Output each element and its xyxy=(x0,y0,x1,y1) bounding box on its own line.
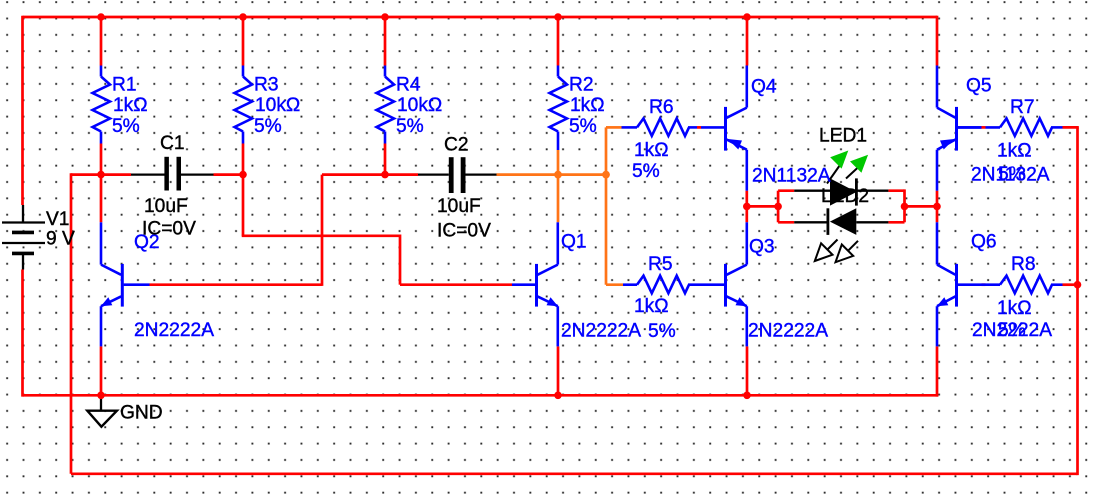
wire orange net C2 to Q1 collector horizontal xyxy=(497,173,607,176)
node dot R3 bottom xyxy=(239,171,247,179)
svg-text:C1: C1 xyxy=(160,133,185,154)
wire Q3 emitter lead xyxy=(746,346,749,395)
wire R3 node to cross vertical xyxy=(322,173,385,176)
wire node row left segment to C1 xyxy=(71,173,131,176)
node dot R4 bottom xyxy=(381,171,389,179)
capacitor C2 right black lead xyxy=(466,173,497,175)
LED bridge top black wire left xyxy=(794,190,830,192)
wire Q4 emitter red lead xyxy=(745,191,748,223)
LED2 xyxy=(815,208,858,262)
wire long feedback right vertical xyxy=(1076,127,1079,475)
svg-text:10kΩ: 10kΩ xyxy=(397,95,442,116)
node dot ground rail GND xyxy=(97,392,105,400)
resistor R8 xyxy=(958,276,1063,294)
node dot Q5Q6 xyxy=(933,203,941,211)
transistor Q6 xyxy=(937,222,957,346)
LED bridge bottom black wire left xyxy=(794,221,828,223)
wire orange stub to R5 xyxy=(606,283,623,286)
wire long feedback left vertical xyxy=(70,173,73,474)
transistor Q3 xyxy=(726,222,748,346)
wire R4 node to C2 left xyxy=(385,173,418,176)
svg-text:Q5: Q5 xyxy=(966,76,992,97)
svg-text:10kΩ: 10kΩ xyxy=(255,95,300,116)
node dot R4 top xyxy=(381,13,389,21)
node dot bridge Q3Q4 xyxy=(743,203,751,211)
wire R8 lead red speck xyxy=(982,283,986,286)
wire Q5 emitter red lead xyxy=(936,191,939,223)
wire Q2 base horizontal xyxy=(150,283,323,286)
svg-text:IC=0V: IC=0V xyxy=(142,218,196,239)
node dot R3 top xyxy=(239,13,247,21)
wire R3 bottom lead xyxy=(242,144,245,175)
node dot C1 left xyxy=(97,171,105,179)
svg-text:GND: GND xyxy=(120,403,163,424)
svg-text:R7: R7 xyxy=(1010,97,1035,118)
resistor R4 xyxy=(377,66,395,144)
svg-text:R5: R5 xyxy=(648,254,673,275)
svg-text:Q4: Q4 xyxy=(751,77,777,98)
svg-text:1kΩ: 1kΩ xyxy=(113,95,148,116)
wire battery bottom vertical xyxy=(21,270,24,397)
wire bridge bottom-right stub xyxy=(888,221,904,224)
svg-text:Q6: Q6 xyxy=(971,231,997,252)
svg-text:5%: 5% xyxy=(112,116,140,137)
resistor R2 xyxy=(550,66,568,151)
wire orange stub to R6 xyxy=(606,126,622,129)
wire R1 bottom lead xyxy=(100,144,103,223)
svg-text:5%: 5% xyxy=(632,161,660,182)
wire Q2 emitter lead xyxy=(100,346,103,395)
wire R7 right corner stub xyxy=(1063,126,1079,129)
wire R4 bottom lead xyxy=(384,144,387,175)
svg-text:5%: 5% xyxy=(569,116,597,137)
wire R2 top lead xyxy=(557,17,560,66)
svg-text:C2: C2 xyxy=(444,134,469,155)
svg-text:IC=0V: IC=0V xyxy=(437,220,491,241)
wire R7 lead red speck xyxy=(982,126,986,129)
wire left edge vertical (battery top to rail) xyxy=(21,16,24,205)
wire orange R2 bottom vertical xyxy=(557,150,560,222)
node dot R1 top xyxy=(97,13,105,21)
svg-text:R3: R3 xyxy=(254,74,279,95)
svg-text:2N2222A: 2N2222A xyxy=(972,320,1052,341)
resistor R6 xyxy=(622,118,698,135)
wire R8 right stub xyxy=(1063,283,1078,286)
node dot bridge right xyxy=(901,203,909,211)
svg-text:2N1132A: 2N1132A xyxy=(752,165,831,186)
wire Q6 emitter drop xyxy=(936,346,939,396)
svg-text:5%: 5% xyxy=(396,116,424,137)
svg-text:1kΩ: 1kΩ xyxy=(570,95,605,116)
svg-text:LED1: LED1 xyxy=(819,126,867,147)
node dot Q4 top xyxy=(743,13,751,21)
wire Q1 emitter lead xyxy=(557,346,560,395)
wire R1 top lead xyxy=(100,17,103,66)
ground xyxy=(87,395,117,426)
svg-text:10uF: 10uF xyxy=(437,196,481,217)
wire bridge top-right stub xyxy=(888,189,904,192)
capacitor C2 left black lead xyxy=(418,173,449,175)
svg-text:1kΩ: 1kΩ xyxy=(634,296,669,317)
wire top rail xyxy=(23,16,938,19)
wire bridge left vertical xyxy=(777,191,780,223)
transistor Q5 xyxy=(937,66,982,191)
svg-text:Q3: Q3 xyxy=(749,236,775,257)
svg-text:R2: R2 xyxy=(569,74,594,95)
transistor Q1 xyxy=(512,222,558,346)
svg-text:9 V: 9 V xyxy=(46,229,75,250)
resistor R3 xyxy=(235,66,253,144)
svg-text:10uF: 10uF xyxy=(144,196,188,217)
resistor R5 xyxy=(623,276,724,294)
LED bridge top black wire right xyxy=(857,190,888,192)
wire R3 top lead xyxy=(242,17,245,66)
wire R4 top lead xyxy=(384,17,387,66)
svg-text:R1: R1 xyxy=(112,74,137,95)
svg-text:V1: V1 xyxy=(46,209,69,230)
svg-text:Q1: Q1 xyxy=(561,231,587,252)
node dot ground rail Q1 xyxy=(554,392,562,400)
LED bridge bottom black wire right xyxy=(856,221,888,223)
wire R6 lead red speck xyxy=(697,126,701,129)
transistor Q4 xyxy=(701,66,747,191)
capacitor C1 right black lead xyxy=(181,173,214,175)
wire cross net A horizontal xyxy=(242,234,400,237)
node dot R8 right xyxy=(1074,281,1082,289)
wire bridge node horizontal xyxy=(747,205,778,208)
capacitor C1 left black lead xyxy=(131,173,165,175)
svg-text:2N2222A: 2N2222A xyxy=(748,321,828,342)
wire ground rail xyxy=(23,394,939,397)
svg-text:2N2222A: 2N2222A xyxy=(134,320,214,341)
resistor R7 xyxy=(958,118,1063,135)
node dot orange R2 bottom xyxy=(554,171,562,179)
svg-text:5%: 5% xyxy=(648,321,676,342)
svg-text:1kΩ: 1kΩ xyxy=(997,141,1032,162)
wire C1 right to R3 node xyxy=(214,173,244,176)
node dot orange R6-R5 tap xyxy=(602,171,610,179)
LED1 xyxy=(827,151,868,206)
node dot ground rail Q3 xyxy=(743,392,751,400)
node dot R2 top xyxy=(554,13,562,21)
svg-text:R4: R4 xyxy=(396,74,421,95)
capacitor C1 plates xyxy=(164,157,169,191)
battery V1 xyxy=(2,205,45,270)
wire bridge bottom-left stub xyxy=(778,221,794,224)
wire long feedback bottom horizontal xyxy=(71,472,1078,475)
capacitor C2 plates xyxy=(449,157,454,193)
svg-text:R6: R6 xyxy=(649,97,674,118)
wire cross net A to Q1 base xyxy=(400,283,512,286)
wire cross net A vertical from R3 node xyxy=(242,175,245,236)
wire bridge right vertical xyxy=(903,189,906,222)
svg-text:2N2222A: 2N2222A xyxy=(561,321,641,342)
svg-text:1kΩ: 1kΩ xyxy=(634,140,669,161)
svg-text:5%: 5% xyxy=(254,116,282,137)
svg-text:1kΩ: 1kΩ xyxy=(997,298,1032,319)
wire bridge to Q5 net xyxy=(905,205,938,208)
wire top rail right drop to Q5 xyxy=(936,16,939,66)
node dot bridge left xyxy=(774,203,782,211)
wire orange vertical R6 to R5 xyxy=(605,127,608,284)
resistor R1 xyxy=(93,66,111,144)
transistor Q2 xyxy=(101,222,150,346)
wire Q4 collector top lead xyxy=(746,17,749,66)
svg-text:2N1132A: 2N1132A xyxy=(971,165,1050,186)
wire bridge top-left stub xyxy=(778,189,794,192)
wire cross net B vertical xyxy=(321,175,324,286)
svg-text:R8: R8 xyxy=(1011,254,1036,275)
wire cross net A vertical to Q1 base row xyxy=(399,235,402,285)
